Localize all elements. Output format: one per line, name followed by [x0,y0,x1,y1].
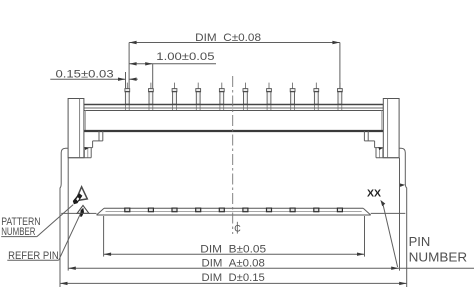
svg-text:XX: XX [367,188,381,200]
svg-text:DIM D±0.15: DIM D±0.15 [202,272,265,284]
svg-text:1.00±0.05: 1.00±0.05 [156,51,214,63]
svg-text:NUMBER: NUMBER [409,249,468,264]
svg-text:DIM C±0.08: DIM C±0.08 [195,32,261,44]
svg-text:DIM A±0.08: DIM A±0.08 [202,258,265,270]
svg-text:PIN: PIN [409,234,431,249]
svg-text:0.15±0.03: 0.15±0.03 [56,69,114,81]
svg-text:DIM B±0.05: DIM B±0.05 [200,244,266,256]
